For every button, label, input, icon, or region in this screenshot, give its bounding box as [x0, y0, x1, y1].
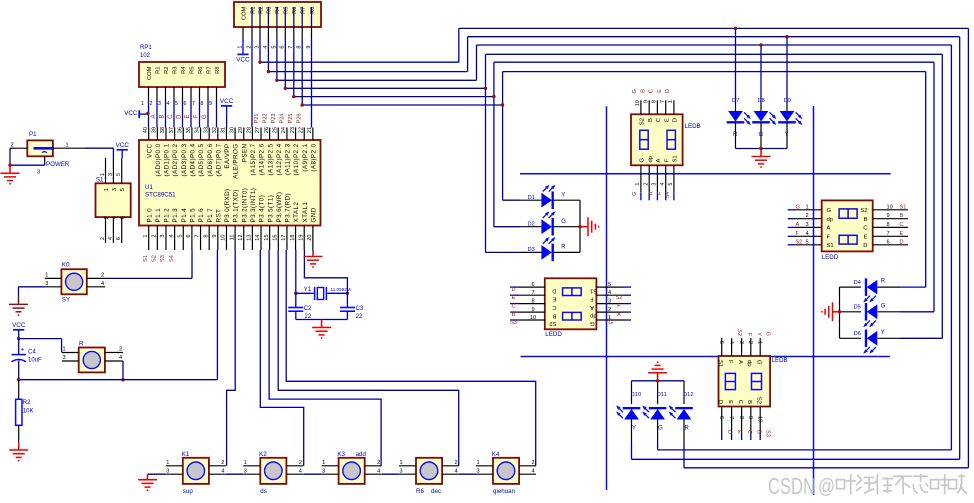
svg-text:1: 1 [66, 142, 69, 148]
svg-text:E: E [727, 400, 733, 404]
capacitor C2 22 [295, 293, 297, 307]
svg-text:(A8)P2.0: (A8)P2.0 [310, 143, 317, 171]
svg-text:R: R [561, 245, 566, 251]
LEDD right right pins [873, 209, 908, 211]
svg-text:10: 10 [887, 204, 893, 210]
resistor network RP2 (P2 pull-ups) [234, 2, 321, 27]
svg-text:P1.5: P1.5 [190, 208, 197, 223]
RP2 interior wires [251, 7, 253, 27]
svg-text:R6: R6 [198, 67, 204, 74]
svg-text:A: A [656, 159, 662, 163]
svg-text:F: F [590, 295, 594, 301]
svg-text:2: 2 [221, 460, 224, 466]
svg-text:2: 2 [377, 460, 380, 466]
svg-text:G: G [765, 332, 771, 336]
svg-text:D: D [673, 118, 679, 122]
svg-text:E: E [185, 115, 191, 119]
svg-text:22: 22 [298, 127, 304, 133]
svg-text:35: 35 [186, 127, 192, 133]
svg-text:R8: R8 [310, 7, 316, 14]
svg-text:37: 37 [169, 127, 175, 133]
svg-text:D: D [726, 430, 732, 434]
svg-text:5: 5 [116, 173, 122, 176]
P1 pin1 wire to S1 [53, 147, 85, 149]
svg-text:A: A [617, 312, 621, 318]
wire LED D6 to bus [900, 337, 942, 339]
svg-text:E: E [553, 295, 557, 301]
svg-text:E: E [736, 430, 742, 434]
svg-text:5: 5 [668, 183, 674, 186]
svg-text:6: 6 [116, 237, 122, 240]
svg-text:2: 2 [150, 101, 153, 107]
svg-text:RST: RST [215, 209, 222, 223]
svg-text:A: A [590, 304, 594, 310]
svg-text:S3: S3 [765, 430, 771, 437]
svg-text:G: G [640, 158, 646, 163]
svg-text:S2: S2 [640, 118, 646, 125]
svg-text:5: 5 [175, 101, 178, 107]
svg-text:VCC: VCC [115, 142, 129, 149]
wire LED D10 to bottom rail [631, 442, 633, 459]
svg-text:EA/VPP: EA/VPP [224, 144, 231, 169]
LEDD right left pins [788, 209, 795, 211]
svg-text:9: 9 [209, 101, 212, 107]
svg-text:G: G [590, 320, 595, 326]
svg-text:(A11)P2.3: (A11)P2.3 [285, 143, 292, 175]
svg-text:7: 7 [728, 416, 734, 419]
svg-text:15: 15 [264, 235, 270, 241]
svg-text:F: F [796, 231, 800, 237]
svg-text:D: D [717, 400, 723, 404]
svg-text:10: 10 [530, 315, 536, 321]
svg-text:7: 7 [531, 290, 534, 296]
svg-text:1: 1 [104, 188, 110, 191]
svg-text:C: C [863, 226, 868, 232]
svg-text:20: 20 [307, 235, 313, 241]
svg-text:3: 3 [63, 355, 66, 361]
svg-text:C: C [511, 304, 515, 310]
LED D12 [683, 381, 685, 396]
svg-text:S4: S4 [169, 255, 175, 262]
svg-text:D3: D3 [528, 247, 535, 253]
K0 pins [45, 277, 62, 279]
svg-text:1: 1 [806, 204, 809, 210]
svg-text:G: G [756, 360, 762, 365]
svg-text:P3.6(WR): P3.6(WR) [276, 192, 283, 223]
svg-text:(AD0)P0.0: (AD0)P0.0 [155, 143, 162, 176]
svg-text:D1: D1 [528, 195, 535, 201]
svg-text:F: F [746, 333, 752, 337]
svg-text:P1.0: P1.0 [146, 208, 153, 223]
svg-text:R: R [685, 426, 690, 432]
svg-text:K0: K0 [62, 262, 70, 269]
svg-text:P1.6: P1.6 [198, 208, 205, 223]
svg-text:dp: dp [827, 217, 834, 223]
wire LED D11 to bottom rail [657, 442, 659, 450]
svg-text:D: D [863, 243, 867, 249]
svg-text:S2: S2 [796, 239, 803, 245]
svg-text:4: 4 [169, 235, 175, 238]
svg-text:E: E [512, 295, 516, 301]
bus horizontal lines from RP2 to jog-ups [260, 61, 459, 63]
svg-text:D: D [552, 287, 556, 293]
RP2 pins + numbers [242, 27, 244, 38]
svg-text:4: 4 [806, 231, 809, 237]
svg-text:22: 22 [356, 314, 363, 320]
svg-text:(A13)P2.5: (A13)P2.5 [267, 143, 274, 175]
svg-text:3: 3 [608, 298, 611, 304]
svg-text:2: 2 [11, 142, 14, 148]
svg-text:8: 8 [201, 101, 204, 107]
svg-text:2: 2 [532, 460, 535, 466]
wire LED D4 to bus [900, 286, 926, 288]
svg-text:1: 1 [143, 235, 149, 238]
LED D6 [840, 337, 862, 339]
7-seg display LEDD right [822, 200, 873, 251]
svg-text:qiehuan: qiehuan [493, 488, 516, 495]
svg-text:D: D [665, 89, 671, 93]
svg-text:A: A [649, 191, 655, 195]
svg-text:(AD3)P0.3: (AD3)P0.3 [181, 143, 188, 176]
svg-text:P22: P22 [263, 114, 269, 124]
svg-text:17: 17 [281, 235, 287, 241]
wires linking buttons pin4-pin3 [226, 473, 243, 475]
svg-text:S1: S1 [717, 360, 723, 367]
svg-text:(A15)P2.7: (A15)P2.7 [250, 143, 257, 175]
watermark chinese glyphs [837, 474, 856, 494]
crystal ground rail [295, 311, 297, 319]
svg-text:R7: R7 [206, 67, 212, 74]
7-seg display LEDB bottom [719, 356, 771, 407]
wire bus tap to LED D7 [735, 28, 737, 104]
svg-text:1: 1 [635, 183, 641, 186]
svg-text:5: 5 [806, 239, 809, 245]
wire LED D5 to bus [900, 311, 934, 313]
svg-text:B: B [553, 312, 557, 318]
svg-text:1: 1 [141, 101, 144, 107]
svg-text:1: 1 [668, 100, 674, 103]
svg-text:2: 2 [100, 237, 106, 240]
svg-text:R6: R6 [416, 488, 424, 495]
svg-text:F: F [727, 360, 733, 364]
svg-text:26: 26 [264, 127, 270, 133]
svg-text:(AD4)P0.4: (AD4)P0.4 [190, 143, 197, 176]
svg-text:10: 10 [221, 235, 227, 241]
RST rail wire [19, 379, 218, 381]
svg-text:3: 3 [166, 468, 169, 474]
wire U1 pin14 to K2 [260, 250, 303, 466]
svg-text:S1: S1 [900, 204, 907, 210]
svg-text:32: 32 [212, 127, 218, 133]
svg-text:R: R [79, 341, 84, 348]
svg-text:sup: sup [183, 488, 194, 495]
svg-text:Y1: Y1 [304, 287, 312, 293]
svg-text:3: 3 [158, 101, 161, 107]
svg-text:3: 3 [45, 281, 48, 287]
ground at K0 (dark) [9, 296, 28, 315]
svg-text:R2: R2 [23, 400, 31, 406]
svg-text:8: 8 [652, 100, 658, 103]
svg-text:Y: Y [755, 332, 761, 336]
wire U1 pin18 XTAL2 to crystal [295, 250, 297, 293]
svg-text:D4: D4 [854, 280, 862, 286]
svg-text:5: 5 [608, 282, 611, 288]
svg-text:10: 10 [756, 416, 762, 422]
LEDB bottom bottom pins [721, 407, 723, 434]
svg-text:4: 4 [299, 468, 302, 474]
svg-text:P26: P26 [296, 114, 302, 124]
svg-text:36: 36 [177, 127, 183, 133]
svg-text:R1: R1 [155, 67, 161, 74]
LEDB bottom pins [640, 165, 642, 192]
svg-text:4: 4 [221, 468, 224, 474]
R button pins [62, 352, 79, 354]
svg-text:RP1: RP1 [140, 45, 152, 51]
svg-text:14: 14 [255, 235, 261, 241]
svg-text:R4: R4 [181, 66, 187, 74]
svg-text:(AD2)P0.2: (AD2)P0.2 [172, 143, 179, 176]
svg-text:3: 3 [108, 173, 114, 176]
svg-text:D6: D6 [854, 331, 861, 337]
LEDD bottom right pins [596, 286, 624, 288]
svg-text:25: 25 [273, 127, 279, 133]
svg-text:G: G [632, 89, 638, 94]
svg-text:7: 7 [660, 100, 666, 103]
svg-text:3: 3 [112, 188, 118, 191]
wire bus tap to LED D8 [760, 45, 762, 104]
capacitor C3 22 [346, 293, 348, 307]
svg-text:A: A [796, 222, 800, 228]
wires RP2 R2-R7 down to bus corners [259, 38, 261, 62]
svg-text:G: G [202, 114, 208, 119]
svg-text:4: 4 [119, 355, 122, 361]
svg-text:P21: P21 [254, 114, 260, 124]
svg-text:5: 5 [177, 235, 183, 238]
svg-text:19: 19 [298, 235, 304, 241]
svg-text:E: E [657, 89, 663, 93]
svg-text:POWER: POWER [46, 161, 70, 168]
svg-text:LEDD: LEDD [822, 254, 839, 261]
svg-text:S1: S1 [673, 155, 679, 162]
wire RP2 R8 down to U1 pin21 [311, 38, 313, 128]
cathode rail D1-D3 [579, 200, 581, 252]
wire RP2 R1 down to U1 pin28 [251, 38, 253, 128]
svg-text:D5: D5 [854, 305, 861, 311]
svg-text:R4: R4 [275, 6, 281, 14]
S1 top pins [105, 158, 107, 183]
svg-text:+: + [21, 347, 25, 354]
svg-text:E: E [900, 231, 904, 237]
svg-text:10uF: 10uF [28, 358, 42, 364]
svg-text:dp: dp [746, 360, 752, 367]
svg-text:PSEN: PSEN [241, 143, 248, 162]
svg-text:4: 4 [608, 290, 611, 296]
svg-text:1: 1 [477, 460, 480, 466]
svg-text:6: 6 [186, 235, 192, 238]
VCC port reset circuit [13, 329, 24, 331]
svg-text:XTAL1: XTAL1 [302, 202, 309, 223]
svg-text:A: A [737, 360, 743, 364]
svg-text:3: 3 [160, 235, 166, 238]
ground sideways D4-D6 [822, 302, 840, 321]
svg-text:(A12)P2.4: (A12)P2.4 [276, 143, 283, 175]
long wire vertical left [606, 106, 608, 490]
svg-text:B: B [746, 400, 752, 404]
svg-text:34: 34 [195, 127, 201, 133]
svg-text:A: A [151, 115, 157, 119]
svg-text:VCC: VCC [220, 98, 234, 105]
svg-text:LEDB: LEDB [685, 123, 701, 130]
svg-text:F: F [194, 114, 200, 118]
svg-text:D9: D9 [784, 98, 791, 104]
svg-text:R1: R1 [250, 7, 256, 14]
svg-text:8: 8 [531, 298, 534, 304]
VCC port to S1 pin5 [117, 149, 128, 151]
svg-text:4: 4 [101, 281, 104, 287]
svg-text:(AD7)P0.7: (AD7)P0.7 [215, 143, 222, 176]
svg-text:7: 7 [887, 231, 890, 237]
LED D10 [631, 381, 633, 396]
svg-text:G: G [796, 204, 800, 210]
svg-text:6: 6 [718, 416, 724, 419]
svg-text:S1: S1 [96, 176, 104, 183]
svg-text:COM: COM [241, 6, 247, 20]
svg-text:R3: R3 [267, 7, 273, 14]
svg-text:G: G [632, 192, 638, 196]
RP1 pins down to U1 P0 pins [148, 87, 150, 100]
svg-text:C: C [900, 222, 904, 228]
P1 pin2 + label [10, 147, 27, 149]
svg-text:R6: R6 [292, 7, 298, 14]
svg-text:3: 3 [244, 468, 247, 474]
svg-text:39: 39 [152, 127, 158, 133]
svg-text:6: 6 [531, 282, 534, 288]
svg-text:2: 2 [299, 460, 302, 466]
ground sideways D1-D3 [580, 217, 599, 236]
svg-text:(AD5)P0.5: (AD5)P0.5 [198, 143, 205, 176]
svg-text:R2: R2 [258, 7, 264, 14]
wire K1 pin3 to ground [148, 473, 166, 475]
ground at P1 [1, 165, 20, 184]
S1 bottom pins [105, 217, 107, 243]
svg-text:R5: R5 [189, 67, 195, 74]
svg-text:S1: S1 [590, 287, 597, 293]
wire P1 pin2 down to ground [9, 148, 11, 165]
svg-text:8: 8 [738, 416, 744, 419]
svg-text:STC89C51: STC89C51 [145, 192, 176, 199]
svg-text:40: 40 [143, 127, 149, 133]
svg-text:8: 8 [203, 235, 209, 238]
U1 pin20 GND wire + ground [312, 250, 314, 253]
svg-text:D8: D8 [758, 98, 765, 104]
wire U1 pin17 to K4 button [286, 250, 536, 466]
svg-text:Y: Y [881, 330, 885, 336]
svg-text:2: 2 [455, 460, 458, 466]
svg-text:6: 6 [887, 239, 890, 245]
svg-text:C3: C3 [356, 306, 364, 312]
bus bottom rails [684, 467, 969, 469]
svg-text:CSDN: CSDN [768, 473, 815, 499]
svg-text:C: C [656, 117, 662, 122]
svg-text:P3.4(T0): P3.4(T0) [259, 195, 266, 223]
svg-text:P1.1: P1.1 [155, 208, 162, 223]
wire U1 pin15 to K3 [269, 250, 381, 466]
svg-text:S4: S4 [665, 192, 671, 199]
svg-text:P24: P24 [280, 114, 286, 124]
svg-text:P1.7: P1.7 [207, 208, 214, 223]
svg-text:F: F [664, 159, 670, 163]
cathode rail D7-D9 [736, 148, 788, 150]
svg-text:R2: R2 [164, 67, 170, 74]
LED D4 [840, 286, 862, 288]
svg-text:38: 38 [160, 127, 166, 133]
svg-text:F: F [617, 304, 621, 310]
svg-text:P23: P23 [271, 114, 277, 124]
svg-text:1: 1 [45, 273, 48, 279]
svg-text:P25: P25 [288, 114, 294, 124]
svg-text:(A9)P2.1: (A9)P2.1 [302, 143, 309, 171]
svg-text:XTAL2: XTAL2 [293, 202, 300, 223]
svg-text:R: R [881, 279, 886, 285]
wire R pin4 to RST rail [122, 361, 124, 380]
wire P1-1 to S1 pin3 [112, 148, 114, 158]
LED D2 [520, 226, 541, 228]
svg-text:P3.1(TXD): P3.1(TXD) [233, 189, 240, 222]
wire bus to LED D3 [486, 251, 521, 253]
svg-text:9: 9 [643, 100, 649, 103]
svg-text:3: 3 [477, 468, 480, 474]
svg-text:23: 23 [290, 127, 296, 133]
svg-text:D: D [511, 287, 515, 293]
U1 top pin stubs + numbers [148, 128, 150, 141]
svg-text:3: 3 [37, 170, 40, 176]
LEDD bottom left pins [510, 286, 519, 288]
svg-text:D: D [177, 114, 183, 119]
svg-text:18: 18 [290, 235, 296, 241]
svg-text:P1.4: P1.4 [181, 208, 188, 223]
svg-text:P3.5(T1): P3.5(T1) [267, 195, 274, 223]
svg-text:B: B [160, 115, 166, 119]
verticals feeding D1-D3 from bus jogs [502, 105, 504, 200]
svg-text:11: 11 [229, 235, 235, 241]
svg-text:9: 9 [531, 307, 534, 313]
wire LED D12 to bottom rail [683, 442, 685, 468]
bus jog-up verticals [458, 28, 460, 62]
svg-text:P3.3(INT1): P3.3(INT1) [250, 188, 257, 223]
svg-text:S2: S2 [756, 397, 762, 404]
svg-text:2: 2 [643, 183, 649, 186]
svg-text:C: C [649, 89, 655, 93]
svg-text:10K: 10K [23, 408, 34, 414]
svg-text:GND: GND [310, 207, 317, 222]
LED D11 [657, 381, 659, 396]
bus top lines L1-L6 to right edge [459, 27, 969, 29]
long wire horizontal upper [520, 173, 891, 175]
svg-text:3: 3 [738, 341, 744, 344]
svg-text:S3: S3 [160, 255, 166, 262]
svg-text:P1.3: P1.3 [172, 208, 179, 223]
LEDB bottom top pins [721, 338, 723, 356]
svg-text:P1.2: P1.2 [164, 208, 171, 223]
svg-text:@: @ [818, 476, 835, 498]
wire VCC to R button pin1 [19, 338, 62, 340]
svg-text:B: B [648, 118, 654, 122]
svg-text:Y: Y [632, 426, 636, 432]
svg-text:VCC: VCC [146, 143, 153, 158]
svg-text:4: 4 [108, 237, 114, 240]
svg-text:E: E [664, 118, 670, 122]
VCC port to U1 pin31 EA [221, 105, 232, 107]
